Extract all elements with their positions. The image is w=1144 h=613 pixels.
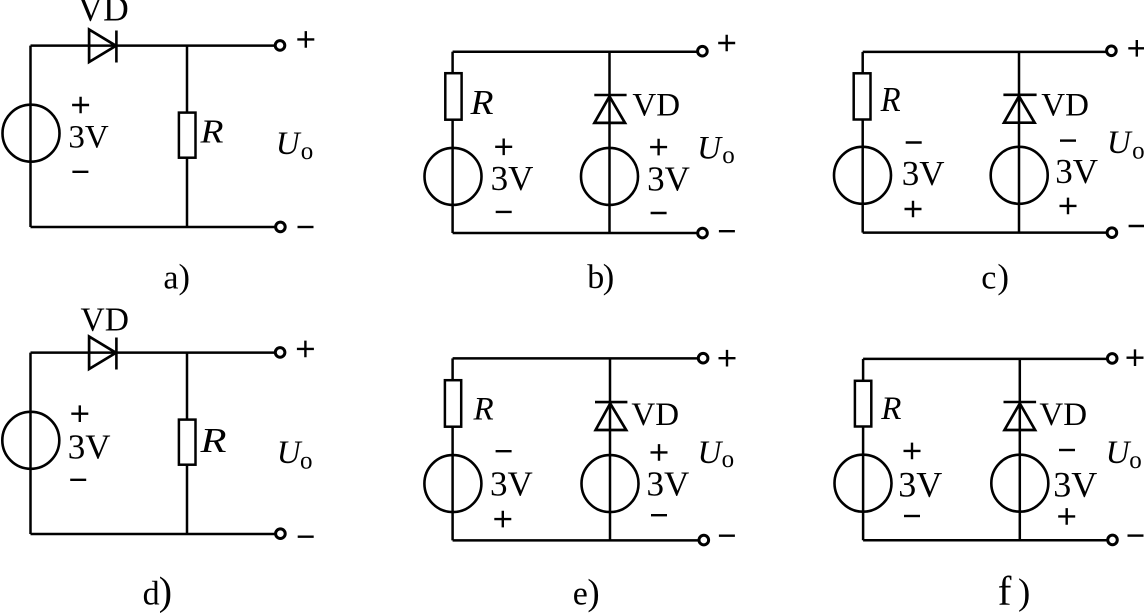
svg-text:3V: 3V bbox=[898, 465, 942, 505]
svg-text:): ) bbox=[587, 573, 599, 613]
svg-text:o: o bbox=[722, 142, 735, 169]
svg-text:U: U bbox=[276, 126, 302, 162]
svg-text:): ) bbox=[603, 258, 615, 296]
svg-text:): ) bbox=[1018, 572, 1030, 613]
svg-text:3V: 3V bbox=[1055, 152, 1098, 191]
svg-text:U: U bbox=[1107, 125, 1133, 161]
svg-text:3V: 3V bbox=[68, 427, 111, 466]
svg-text:U: U bbox=[1106, 435, 1132, 471]
svg-text:VD: VD bbox=[1041, 88, 1089, 124]
svg-text:R: R bbox=[199, 114, 223, 151]
svg-text:3V: 3V bbox=[490, 464, 533, 503]
svg-text:b: b bbox=[587, 259, 604, 296]
svg-text:3V: 3V bbox=[1053, 465, 1097, 505]
svg-text:U: U bbox=[277, 435, 303, 471]
svg-text:R: R bbox=[469, 84, 493, 122]
svg-text:): ) bbox=[997, 257, 1009, 296]
svg-text:): ) bbox=[159, 568, 172, 613]
svg-text:R: R bbox=[880, 391, 901, 427]
svg-text:o: o bbox=[1129, 447, 1142, 474]
svg-text:o: o bbox=[301, 138, 314, 165]
svg-text:3V: 3V bbox=[491, 159, 534, 198]
svg-text:e: e bbox=[573, 576, 588, 613]
svg-text:): ) bbox=[179, 258, 191, 296]
svg-text:VD: VD bbox=[81, 302, 129, 339]
svg-text:3V: 3V bbox=[647, 465, 690, 504]
svg-text:3V: 3V bbox=[68, 120, 109, 156]
svg-text:f: f bbox=[998, 568, 1012, 613]
svg-text:3V: 3V bbox=[902, 154, 945, 193]
svg-text:3V: 3V bbox=[647, 160, 690, 199]
svg-text:VD: VD bbox=[632, 88, 680, 124]
svg-text:VD: VD bbox=[1039, 397, 1087, 433]
svg-text:R: R bbox=[473, 391, 494, 427]
svg-text:o: o bbox=[300, 447, 313, 474]
svg-text:R: R bbox=[199, 421, 226, 460]
svg-text:c: c bbox=[981, 260, 996, 297]
svg-text:U: U bbox=[698, 435, 724, 471]
svg-text:d: d bbox=[143, 576, 160, 613]
svg-text:o: o bbox=[1132, 137, 1144, 164]
svg-text:U: U bbox=[697, 130, 723, 166]
svg-text:a: a bbox=[163, 259, 178, 296]
svg-text:VD: VD bbox=[631, 397, 679, 433]
svg-text:VD: VD bbox=[78, 0, 129, 29]
svg-text:o: o bbox=[722, 446, 735, 473]
svg-text:R: R bbox=[880, 81, 901, 119]
